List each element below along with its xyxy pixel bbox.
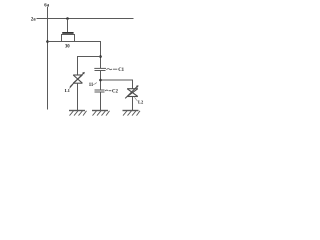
wire L1 lower [77,83,79,110]
svg-text:6a: 6a [44,3,49,8]
svg-text:2a: 2a [31,17,36,22]
node gate junction [66,17,69,20]
node lower junction [99,79,102,82]
capacitor C2 plates [95,90,105,92]
ground left [69,111,87,116]
svg-text:30: 30 [65,45,70,50]
svg-text:C1: C1 [118,68,124,73]
ground right [123,111,141,116]
wire 6a vertical [47,7,49,110]
node source junction [46,40,49,43]
transistor Q1 body [62,35,75,42]
wire top rail (net 2a) [37,18,134,20]
wire C column lower [100,92,102,111]
inductor L2 (variable, bowtie symbol) [125,85,138,101]
ground middle [92,111,110,116]
wire gate [67,19,69,33]
wire branch to L1 [78,57,101,75]
node drain branch junction [99,55,102,58]
svg-text:C2: C2 [112,90,118,95]
wire to L2 [101,80,133,89]
capacitor C1 plates [94,68,106,70]
svg-text:L2: L2 [138,99,144,104]
wire C column middle [100,71,102,91]
svg-text:L1: L1 [65,88,71,93]
transistor Q1 gate electrode [62,32,73,34]
label 11 leader [93,83,97,85]
svg-text:11: 11 [89,83,94,88]
wire source-drain rail [48,42,101,69]
wire L2 lower [132,97,134,111]
label C2 leader [105,89,111,92]
inductor L1 (variable, bowtie symbol) [69,72,84,89]
label C1 leader [107,69,118,70]
